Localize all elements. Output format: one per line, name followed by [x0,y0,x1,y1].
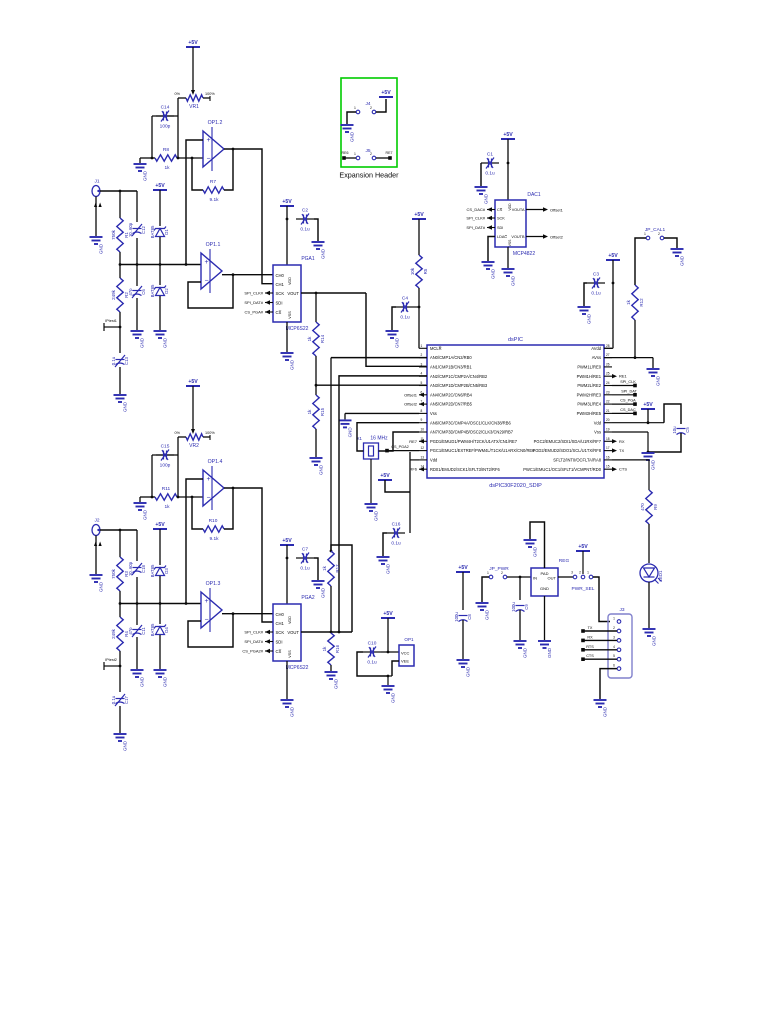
svg-text:+5V: +5V [383,611,393,617]
svg-text:1: 1 [613,617,615,621]
svg-text:10k: 10k [410,267,415,275]
wire SPI_DAT from pin23 [612,394,634,396]
svg-text:D3: D3 [164,568,169,574]
ground at C4 [386,331,399,338]
wire PWR_SEL to J3 pin1 [593,577,610,622]
MCU RF6 arrow pin14 [419,467,424,471]
svg-text:9.1k: 9.1k [209,536,219,542]
svg-text:GND: GND [466,666,471,677]
svg-text:R15: R15 [320,407,325,416]
svg-text:20: 20 [606,418,610,422]
svg-text:TX: TX [619,448,624,453]
svg-text:GND: GND [143,170,148,181]
svg-text:GND: GND [395,337,400,348]
svg-text:C1: C1 [487,152,493,158]
svg-text:OP1: OP1 [404,637,414,642]
svg-text:0.1u: 0.1u [485,171,495,177]
wire OP1.4 output to PGA2 CH1 [224,488,273,622]
op-amp power block OP1 [399,645,414,666]
svg-text:C12: C12 [141,225,146,233]
svg-text:+5V: +5V [282,538,292,544]
MCU RE1 arrow pin25 [612,374,617,378]
resistor R3 750k [119,530,121,557]
resistor R16 1k [328,633,334,665]
svg-text:SCK: SCK [276,291,285,296]
svg-text:GND: GND [533,546,538,557]
resistor R12 1k [632,285,638,320]
svg-text:SPI_CLK#: SPI_CLK# [466,216,485,221]
svg-text:13: 13 [421,455,425,459]
svg-text:AN3/CMP1D/CMP2B/CN5/RB3: AN3/CMP1D/CMP2B/CN5/RB3 [430,383,488,388]
svg-text:C4: C4 [402,296,408,302]
svg-text:BAT85: BAT85 [150,623,155,636]
svg-text:3: 3 [571,571,573,575]
svg-text:GND: GND [348,427,353,438]
svg-text:+5V: +5V [282,199,292,205]
wire PGA2 VOUT to divider [301,631,352,633]
diode D2 BAT85 clamp to ground [154,286,166,296]
node IPtest1 tick [119,326,122,329]
svg-text:JP_PWR: JP_PWR [489,566,509,572]
svg-text:0.1u: 0.1u [367,660,377,666]
svg-text:GND: GND [350,131,355,142]
svg-text:24: 24 [606,381,610,385]
svg-text:J3: J3 [619,607,624,613]
svg-text:AN1/CMP1B/CN3/RB1: AN1/CMP1B/CN3/RB1 [430,365,472,370]
svg-text:CS_PGA: CS_PGA [620,399,636,403]
wire MCU Vss pin8 to ground [345,412,419,414]
svg-text:C11: C11 [141,627,146,635]
svg-text:1: 1 [644,232,646,236]
capacitor C15 100p [152,454,178,456]
svg-text:+5V: +5V [188,40,198,46]
op-amp OP1.2 [203,127,224,171]
svg-text:1: 1 [587,571,589,575]
svg-text:1k: 1k [322,565,327,571]
svg-text:BAT85: BAT85 [150,225,155,238]
svg-text:JP_CAL1: JP_CAL1 [645,227,666,233]
svg-text:SPI_CLK: SPI_CLK [620,380,636,384]
svg-text:SDI: SDI [276,639,283,644]
capacitor C7 0.1u [296,557,303,559]
svg-text:PWM3L/RE4: PWM3L/RE4 [577,402,601,407]
svg-text:MCLR̅: MCLR̅ [430,346,442,351]
svg-text:IPtest2: IPtest2 [105,658,117,662]
svg-text:CS_DAC: CS_DAC [620,408,636,412]
wire crystal case to ground [370,459,372,503]
ground at C6 [131,331,144,338]
svg-text:PWM1H/RE1: PWM1H/RE1 [577,374,602,379]
svg-text:10u: 10u [672,426,677,434]
trimmer capacitor C18 10..60p [136,530,138,561]
svg-text:R17: R17 [335,564,340,573]
svg-text:2: 2 [613,626,615,630]
svg-text:16: 16 [606,455,610,459]
svg-text:VDD: VDD [288,277,292,285]
DAC U DAC1 MCP4822 [495,200,526,247]
microcontroller U1 dsPIC30F2020 [427,345,604,478]
svg-text:+5V: +5V [155,183,165,189]
svg-text:5: 5 [421,381,423,385]
wire OP1 VEE loop to ground [357,652,388,676]
svg-text:VEE: VEE [401,659,409,664]
svg-text:10..60p: 10..60p [128,561,133,576]
svg-text:0.1u: 0.1u [300,227,310,233]
svg-text:SPI_DAT#: SPI_DAT# [244,300,263,305]
svg-text:C8: C8 [467,614,472,620]
svg-text:0.1u: 0.1u [591,291,601,297]
wire SPI_CLK from pin24 [612,385,634,387]
svg-text:PGD2/EMUD2/SDO1/SCL/U1TX/RF8: PGD2/EMUD2/SDO1/SCL/U1TX/RF8 [533,448,602,453]
svg-text:R10: R10 [209,518,218,524]
wire OP1.2 +in from bus [186,140,203,265]
resistor R5 10k [416,255,422,288]
svg-text:9.1k: 9.1k [209,197,219,203]
svg-text:AN7/CMP3D/CMP4B/OSC2/CLK3/CN29: AN7/CMP3D/CMP4B/OSC2/CLK3/CN29/RB7 [430,430,514,435]
svg-text:100p: 100p [160,124,171,130]
wire divider tap to AN3 [316,384,427,386]
ground at C13 [114,395,127,402]
ground at R15 [310,458,323,465]
svg-text:8: 8 [421,409,423,413]
svg-text:MCP4822: MCP4822 [513,251,535,257]
svg-text:VDD: VDD [508,203,512,211]
wire OP1.3 feedback [188,614,233,647]
svg-text:CTS: CTS [586,654,594,658]
svg-text:RF6: RF6 [409,467,417,472]
svg-text:SPI_DAT: SPI_DAT [621,389,637,393]
header PWR_SEL [558,576,573,578]
svg-text:+: + [204,259,208,266]
resistor R11 1k [140,496,155,498]
svg-text:47p: 47p [128,288,133,296]
expansion header green box [341,78,397,167]
diode D4 BAT85 clamp to ground [154,625,166,635]
svg-text:RE7: RE7 [386,151,393,155]
connector J2 [92,525,100,536]
ground at LED1 [643,629,656,636]
svg-text:25: 25 [606,372,610,376]
capacitor C9 100u [519,577,521,600]
svg-text:AVdd: AVdd [591,346,601,351]
LED LED1 [640,564,658,582]
svg-text:+: + [204,598,208,605]
wire OP1.4 +in from bus [186,479,203,604]
capacitor C5 10u [677,429,686,435]
svg-text:GND: GND [123,401,128,412]
svg-text:18: 18 [606,437,610,441]
svg-text:PGC2/EMUC2/SDI1/SDA/U1RX/RF7: PGC2/EMUC2/SDI1/SDA/U1RX/RF7 [534,439,602,444]
svg-text:+: + [206,476,210,483]
svg-text:−: − [206,495,210,502]
op-amp OP1.1 [201,249,222,293]
svg-text:3: 3 [613,635,615,639]
PGA2 SPI pin wires [265,631,273,633]
svg-text:GND: GND [163,337,168,348]
svg-text:VSS: VSS [288,311,292,319]
svg-text:10: 10 [421,428,425,432]
svg-text:GND: GND [656,375,661,386]
ground at C17 [114,734,127,741]
svg-text:2: 2 [658,232,660,236]
svg-text:GND: GND [99,581,104,592]
wire Vss pin19 to ground [612,431,648,433]
svg-text:VOUTA: VOUTA [512,208,525,212]
capacitor C13 0.1u [119,327,121,353]
svg-text:J2: J2 [94,518,99,524]
svg-text:GND: GND [140,676,145,687]
svg-text:TX: TX [588,626,593,630]
wire DAC1 LDAC to ground [488,237,495,262]
svg-text:AN6/CMP3C/CMP4A/OSC1/CLK/CN38/: AN6/CMP3C/CMP4A/OSC1/CLK/CN38/RB6 [430,420,511,425]
svg-text:VOUT: VOUT [287,291,299,296]
svg-text:Vss: Vss [594,430,601,435]
svg-text:GND: GND [491,268,496,279]
svg-text:0%: 0% [175,92,181,96]
svg-text:RX: RX [587,635,593,639]
svg-text:+5V: +5V [503,132,513,138]
svg-text:C15: C15 [161,444,170,450]
wire OSC2 to crystal [379,432,420,451]
svg-text:1k: 1k [626,299,631,305]
svg-text:GND: GND [319,464,324,475]
svg-text:GND: GND [123,740,128,751]
svg-text:0%: 0% [175,431,181,435]
ground at R8 [139,158,141,163]
svg-text:1: 1 [421,344,423,348]
svg-text:26: 26 [606,362,610,366]
ground at D2 [154,331,167,338]
svg-text:2: 2 [370,106,372,110]
svg-text:SCK: SCK [497,217,505,221]
svg-text:1k: 1k [164,504,170,510]
svg-text:AN5/CMP2D/CN7/RB5: AN5/CMP2D/CN7/RB5 [430,402,473,407]
svg-text:CTS: CTS [619,467,627,472]
svg-text:R11: R11 [162,486,171,492]
resistor R7 9.1k feedback [192,158,203,190]
svg-text:DAC1: DAC1 [527,192,541,198]
wire pin16 to LED resistor [612,459,649,461]
svg-text:SDI: SDI [497,226,503,230]
svg-text:R14: R14 [320,334,325,343]
svg-text:CS̅: CS̅ [276,310,282,315]
MCU TX arrow pin17 [612,448,617,452]
svg-text:470: 470 [640,503,645,511]
svg-text:OP1.2: OP1.2 [208,120,223,126]
svg-text:GND: GND [511,275,516,286]
svg-text:PGA1: PGA1 [301,256,315,262]
svg-text:750k: 750k [111,229,116,240]
svg-text:4: 4 [613,645,615,649]
svg-text:GND: GND [99,243,104,254]
svg-text:C2: C2 [302,208,308,214]
resistor R8 1k [140,157,155,159]
resistor R15 1k [313,395,319,429]
svg-text:GND: GND [321,587,326,598]
svg-text:−: − [204,617,208,624]
ground at R11 [139,497,141,502]
svg-text:−: − [204,278,208,285]
svg-text:CH0: CH0 [276,612,285,617]
ground at R16 [325,672,338,679]
svg-text:100%: 100% [205,431,215,435]
op-amp OP1.4 [203,466,224,510]
svg-text:19: 19 [606,428,610,432]
svg-text:BAT85: BAT85 [150,284,155,297]
ground at C1 [475,187,488,194]
wire OP1.1 feedback [188,275,233,308]
svg-text:RTS: RTS [586,645,594,649]
capacitor C11 47p [132,625,142,637]
svg-text:GND: GND [290,706,295,717]
svg-text:27: 27 [606,353,610,357]
capacitor C3 0.1u [587,282,594,284]
resistor R9 470 [646,490,652,524]
svg-text:RE1: RE1 [619,374,628,379]
wire PGA2 VSS to ground [286,661,288,699]
MCU RE7 arrow pin11 [419,439,424,443]
svg-text:PWM3H/RE5: PWM3H/RE5 [577,411,602,416]
svg-text:VSS: VSS [288,650,292,658]
svg-text:GND: GND [484,193,489,204]
wire VR1 left to C14/R8 node [177,98,179,158]
svg-text:R7: R7 [210,179,216,185]
svg-text:CH1: CH1 [276,282,285,287]
capacitor C6 47p [132,286,142,298]
svg-text:GND: GND [374,510,379,521]
svg-text:GND: GND [290,359,295,370]
svg-text:SPI_CLK#: SPI_CLK# [244,291,263,296]
svg-text:1: 1 [487,571,489,575]
node IPtest2 tick [119,665,122,668]
connector J1 [92,186,100,197]
svg-text:MCP6S22: MCP6S22 [286,326,309,332]
svg-text:Offset2: Offset2 [550,234,564,239]
svg-text:R16: R16 [335,644,340,653]
MCU RX arrow pin18 [612,439,617,443]
svg-text:GND: GND [547,647,552,658]
capacitor C4 0.1u on MCLR [396,306,403,308]
svg-text:CS̅: CS̅ [497,208,503,212]
svg-text:dsPIC: dsPIC [508,337,523,343]
svg-text:R5: R5 [423,268,428,274]
svg-text:1: 1 [354,152,356,156]
svg-text:REG: REG [559,558,570,564]
svg-text:+5V: +5V [188,379,198,385]
svg-text:0.1u: 0.1u [111,356,116,365]
svg-text:750k: 750k [111,568,116,579]
crystal X1 16MHz [364,443,379,459]
wire AN0 line [331,357,427,359]
svg-text:23: 23 [606,390,610,394]
svg-text:IN: IN [533,576,537,581]
svg-text:CH0: CH0 [276,273,285,278]
svg-text:4: 4 [421,372,423,376]
wire VR2 left to C15/R11 node [177,437,179,497]
MCU right pins [604,347,612,349]
resistor R17 1k [328,551,334,586]
svg-text:28: 28 [606,344,610,348]
svg-text:C5: C5 [685,427,690,433]
svg-text:GND: GND [321,248,326,259]
svg-text:PGC1/EMUC1/EXTREF/PWM4L/T1CK/U: PGC1/EMUC1/EXTREF/PWM4L/T1CK/U1ARX/CN0/R… [430,448,535,453]
svg-text:GND: GND [163,676,168,687]
ground at C2 [312,242,325,249]
MCU left pins [419,347,427,349]
svg-text:PGA2: PGA2 [301,595,315,601]
svg-text:17: 17 [606,446,610,450]
svg-text:SDI: SDI [276,300,283,305]
svg-text:−: − [206,156,210,163]
capacitor C14 100p [152,115,178,117]
svg-text:9: 9 [421,418,423,422]
capacitor C2 0.1u [296,218,303,220]
svg-text:RE7: RE7 [409,439,418,444]
svg-text:Vdd: Vdd [430,458,438,463]
svg-text:GND: GND [523,647,528,658]
svg-text:SPI_DAT#: SPI_DAT# [244,639,263,644]
svg-text:CS_PGA2: CS_PGA2 [391,445,409,449]
svg-text:249k: 249k [111,289,116,300]
wire OP1.3 output to PGA2 CH0 [222,613,273,615]
wire R5 to MCLR pin [418,288,420,348]
svg-text:Offset1: Offset1 [550,207,564,212]
wire OP1.1 output to PGA1 CH0 [222,274,273,276]
svg-text:Vss: Vss [430,411,437,416]
svg-text:+: + [206,137,210,144]
DAC1 VOUTA arrow Offset1 [526,209,543,211]
svg-text:RX: RX [619,439,625,444]
svg-text:OP1.1: OP1.1 [206,242,221,248]
capacitor C17 0.1u [119,666,121,692]
svg-text:VOUT: VOUT [287,630,299,635]
wire ch1 input bus [120,264,203,266]
svg-text:100%: 100% [205,92,215,96]
svg-text:RD01/EMUD2/SCK1/SFLT3/INT2/RF6: RD01/EMUD2/SCK1/SFLT3/INT2/RF6 [430,467,500,472]
svg-text:Offset2: Offset2 [404,402,418,407]
svg-text:CS_PGA2#: CS_PGA2# [242,649,263,654]
svg-text:VCC: VCC [401,651,410,656]
svg-text:AN2/CMP1C/CMP2A/CN4/RB2: AN2/CMP1C/CMP2A/CN4/RB2 [430,374,488,379]
svg-text:C3: C3 [593,272,599,278]
svg-text:R9: R9 [653,504,658,510]
svg-text:1k: 1k [322,646,327,652]
svg-text:BAT85: BAT85 [150,564,155,577]
svg-text:IPtest1: IPtest1 [105,319,117,323]
svg-text:J1: J1 [94,179,99,185]
capacitor C10 0.1u [363,651,370,653]
svg-text:100p: 100p [160,463,171,469]
svg-text:VDD: VDD [288,616,292,624]
svg-text:MCP6S22: MCP6S22 [286,665,309,671]
svg-text:CS_DAC#: CS_DAC# [467,207,486,212]
svg-text:100u: 100u [454,612,459,622]
svg-text:2: 2 [501,571,503,575]
svg-text:C14: C14 [161,105,170,111]
svg-text:C13: C13 [124,356,129,364]
svg-text:0.1u: 0.1u [300,566,310,572]
PGA1 SPI pin wires [265,292,273,294]
svg-text:+5V: +5V [155,522,165,528]
wire J3 pin6 to ground [600,669,617,699]
wire C14 left to R8 left [151,116,153,158]
svg-text:GND: GND [334,678,339,689]
svg-text:C16: C16 [392,522,401,528]
svg-text:+5V: +5V [381,90,391,96]
svg-text:GND: GND [386,563,391,574]
svg-text:1k: 1k [307,336,312,342]
svg-text:GND: GND [391,692,396,703]
